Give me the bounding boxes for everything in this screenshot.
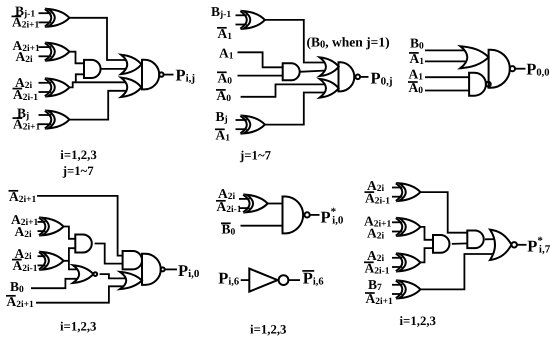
svg-text:i=1,2,3: i=1,2,3 — [250, 322, 286, 336]
svg-text:(B0, when j=1): (B0, when j=1) — [307, 34, 390, 50]
svg-text:i=1,2,3: i=1,2,3 — [60, 148, 96, 162]
svg-text:i=1,2,3: i=1,2,3 — [400, 314, 436, 328]
svg-text:i=1,2,3: i=1,2,3 — [60, 319, 96, 333]
svg-text:j=1~7: j=1~7 — [62, 164, 95, 178]
svg-text:j=1~7: j=1~7 — [239, 149, 272, 163]
